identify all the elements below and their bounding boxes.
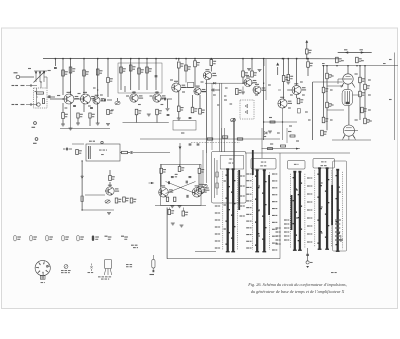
svg-text:du générateur de base de temps: du générateur de base de temps et de l’a… (251, 289, 345, 294)
